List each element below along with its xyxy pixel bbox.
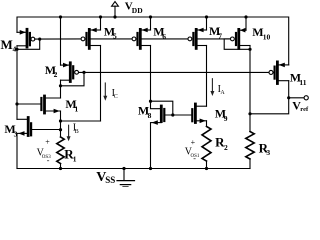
transistor M8 (NMOS, diode-connected)	[151, 101, 165, 125]
node M11 label	[290, 71, 307, 87]
current IC arrow	[103, 83, 107, 101]
node junction dot Vref	[287, 96, 290, 99]
node rail dot M10	[244, 15, 247, 18]
node M5 label	[104, 24, 117, 40]
node VOS3 label	[37, 137, 52, 165]
svg-text:DD: DD	[132, 6, 143, 15]
power VDD symbol	[112, 2, 119, 19]
node rail dot M6	[149, 15, 152, 18]
transistor M2 (PMOS, diode-connected)	[61, 63, 79, 82]
ground	[117, 169, 135, 187]
node rail dot M8	[149, 167, 152, 170]
node junction dot node B lower	[59, 128, 62, 131]
wire M2 gate to M11 gate	[79, 71, 269, 73]
wire M3 source to VSS rail	[16, 133, 18, 168]
resistor R1	[57, 137, 64, 169]
node R3 label	[259, 141, 271, 157]
node M1 label	[65, 97, 78, 113]
transistor M7 (PMOS)	[188, 17, 207, 48]
node VSS label	[96, 170, 115, 185]
wire M7 drain down to M9	[206, 46, 208, 107]
svg-text:+: +	[45, 137, 50, 146]
transistor M4 (top-left PMOS, diode-connected)	[17, 29, 35, 47]
wire VDD top rail	[17, 17, 289, 65]
node M7 label	[209, 24, 222, 41]
svg-text:6: 6	[162, 32, 166, 41]
svg-text:2: 2	[224, 143, 228, 152]
node junction dot M2 drain	[59, 84, 62, 87]
transistor M3 (NMOS)	[17, 118, 31, 136]
wire M2 gate-drain diode loop	[61, 72, 85, 85]
svg-text:9: 9	[224, 114, 228, 123]
node junction dot M2 gate	[82, 71, 85, 74]
wire M3 gate to node B	[32, 129, 60, 131]
node VDD label	[125, 1, 144, 16]
wire M8 source to VSS rail	[150, 123, 152, 169]
wire gate bus M7 to M10	[197, 38, 230, 40]
svg-text:ref: ref	[300, 106, 309, 113]
wire left bus M4 drain down	[16, 46, 18, 120]
node M8 label	[138, 104, 152, 120]
node junction dot M4 gate	[38, 38, 41, 41]
node junction dot M8 drain	[149, 100, 152, 103]
wire M11 drain down to Vref	[288, 81, 290, 98]
svg-text:10: 10	[263, 32, 271, 41]
node junction dot M8 gate	[171, 113, 174, 116]
node IA label	[218, 84, 226, 96]
node Vref label	[292, 99, 309, 114]
wire VSS bottom rail	[17, 168, 250, 170]
resistor R3	[246, 114, 254, 169]
node R2 label	[215, 134, 228, 152]
resistor R2	[202, 127, 211, 169]
node R1 label	[64, 147, 77, 164]
svg-text:3: 3	[266, 148, 270, 157]
node M10 label	[252, 25, 270, 41]
node rail dot M7	[205, 15, 208, 18]
wire M4 gate-drain diode loop	[17, 39, 40, 49]
node Vref output terminal	[304, 96, 308, 100]
svg-text:11: 11	[299, 78, 306, 87]
svg-text:SS: SS	[105, 175, 115, 185]
wire M2 source from rail	[60, 17, 62, 65]
wire M9 source down to R2	[206, 121, 208, 127]
transistor M1 (NMOS)	[41, 96, 60, 113]
current IA arrow	[210, 79, 214, 96]
node rail dot ground	[122, 167, 125, 170]
node junction dot M4 drain	[15, 48, 18, 51]
svg-text:M: M	[1, 37, 13, 52]
node junction dot node B upper	[59, 119, 62, 122]
wire Vref to output terminal	[289, 97, 304, 99]
wire M10 gate-drain diode loop	[224, 39, 250, 49]
wire M1 source down to node B	[60, 111, 62, 137]
transistor M9 (NMOS)	[192, 104, 206, 123]
wire gate bus M5 to M6	[91, 38, 133, 40]
wire gate bus M6 to M7	[142, 38, 189, 40]
node IB label	[73, 123, 79, 135]
node IC label	[112, 88, 118, 100]
svg-text:A: A	[220, 90, 225, 96]
svg-text:-: -	[193, 154, 196, 163]
svg-text:1: 1	[73, 154, 77, 163]
svg-text:-: -	[47, 156, 50, 165]
wire M5 drain down to node A	[100, 46, 102, 122]
node rail dot M5	[99, 15, 102, 18]
node M3 label	[4, 122, 17, 138]
svg-text:2: 2	[54, 70, 58, 79]
wire M2 drain down to M1 drain	[60, 80, 62, 98]
wire M8 gate to M9 gate	[165, 114, 191, 116]
svg-text:1: 1	[75, 104, 79, 113]
node M6 label	[153, 24, 166, 41]
node M9 label	[215, 107, 228, 123]
node M4 label	[1, 37, 17, 53]
node junction dot R3 top	[248, 112, 251, 115]
transistor M5 (PMOS)	[81, 17, 100, 48]
wire M4 gate to top gate bus	[35, 38, 81, 40]
svg-text:B: B	[75, 129, 79, 135]
node VOS1 label	[185, 138, 200, 163]
wire Vref node down-left to R3	[250, 98, 289, 114]
svg-text:8: 8	[148, 111, 152, 120]
node rail dot R1	[59, 167, 62, 170]
transistor M11 (PMOS)	[269, 62, 289, 84]
node M2 label	[45, 63, 58, 79]
node rail dot R2	[205, 167, 208, 170]
svg-text:C: C	[114, 94, 118, 100]
wire M10 drain down to Vref node	[249, 46, 251, 114]
transistor M6 (PMOS)	[132, 17, 150, 48]
wire M6 drain down to M8	[150, 46, 152, 102]
transistor M10 (PMOS, diode-connected)	[231, 17, 251, 48]
node junction dot M10 drain	[248, 48, 251, 51]
wire node B to M5 drain	[61, 120, 101, 122]
wire M1 gate to left bus	[17, 103, 40, 105]
node junction dot M1 gate	[15, 102, 18, 105]
wire M8 gate-drain diode loop	[151, 101, 173, 115]
current IB arrow	[67, 125, 71, 141]
node rail dot M2	[59, 15, 62, 18]
